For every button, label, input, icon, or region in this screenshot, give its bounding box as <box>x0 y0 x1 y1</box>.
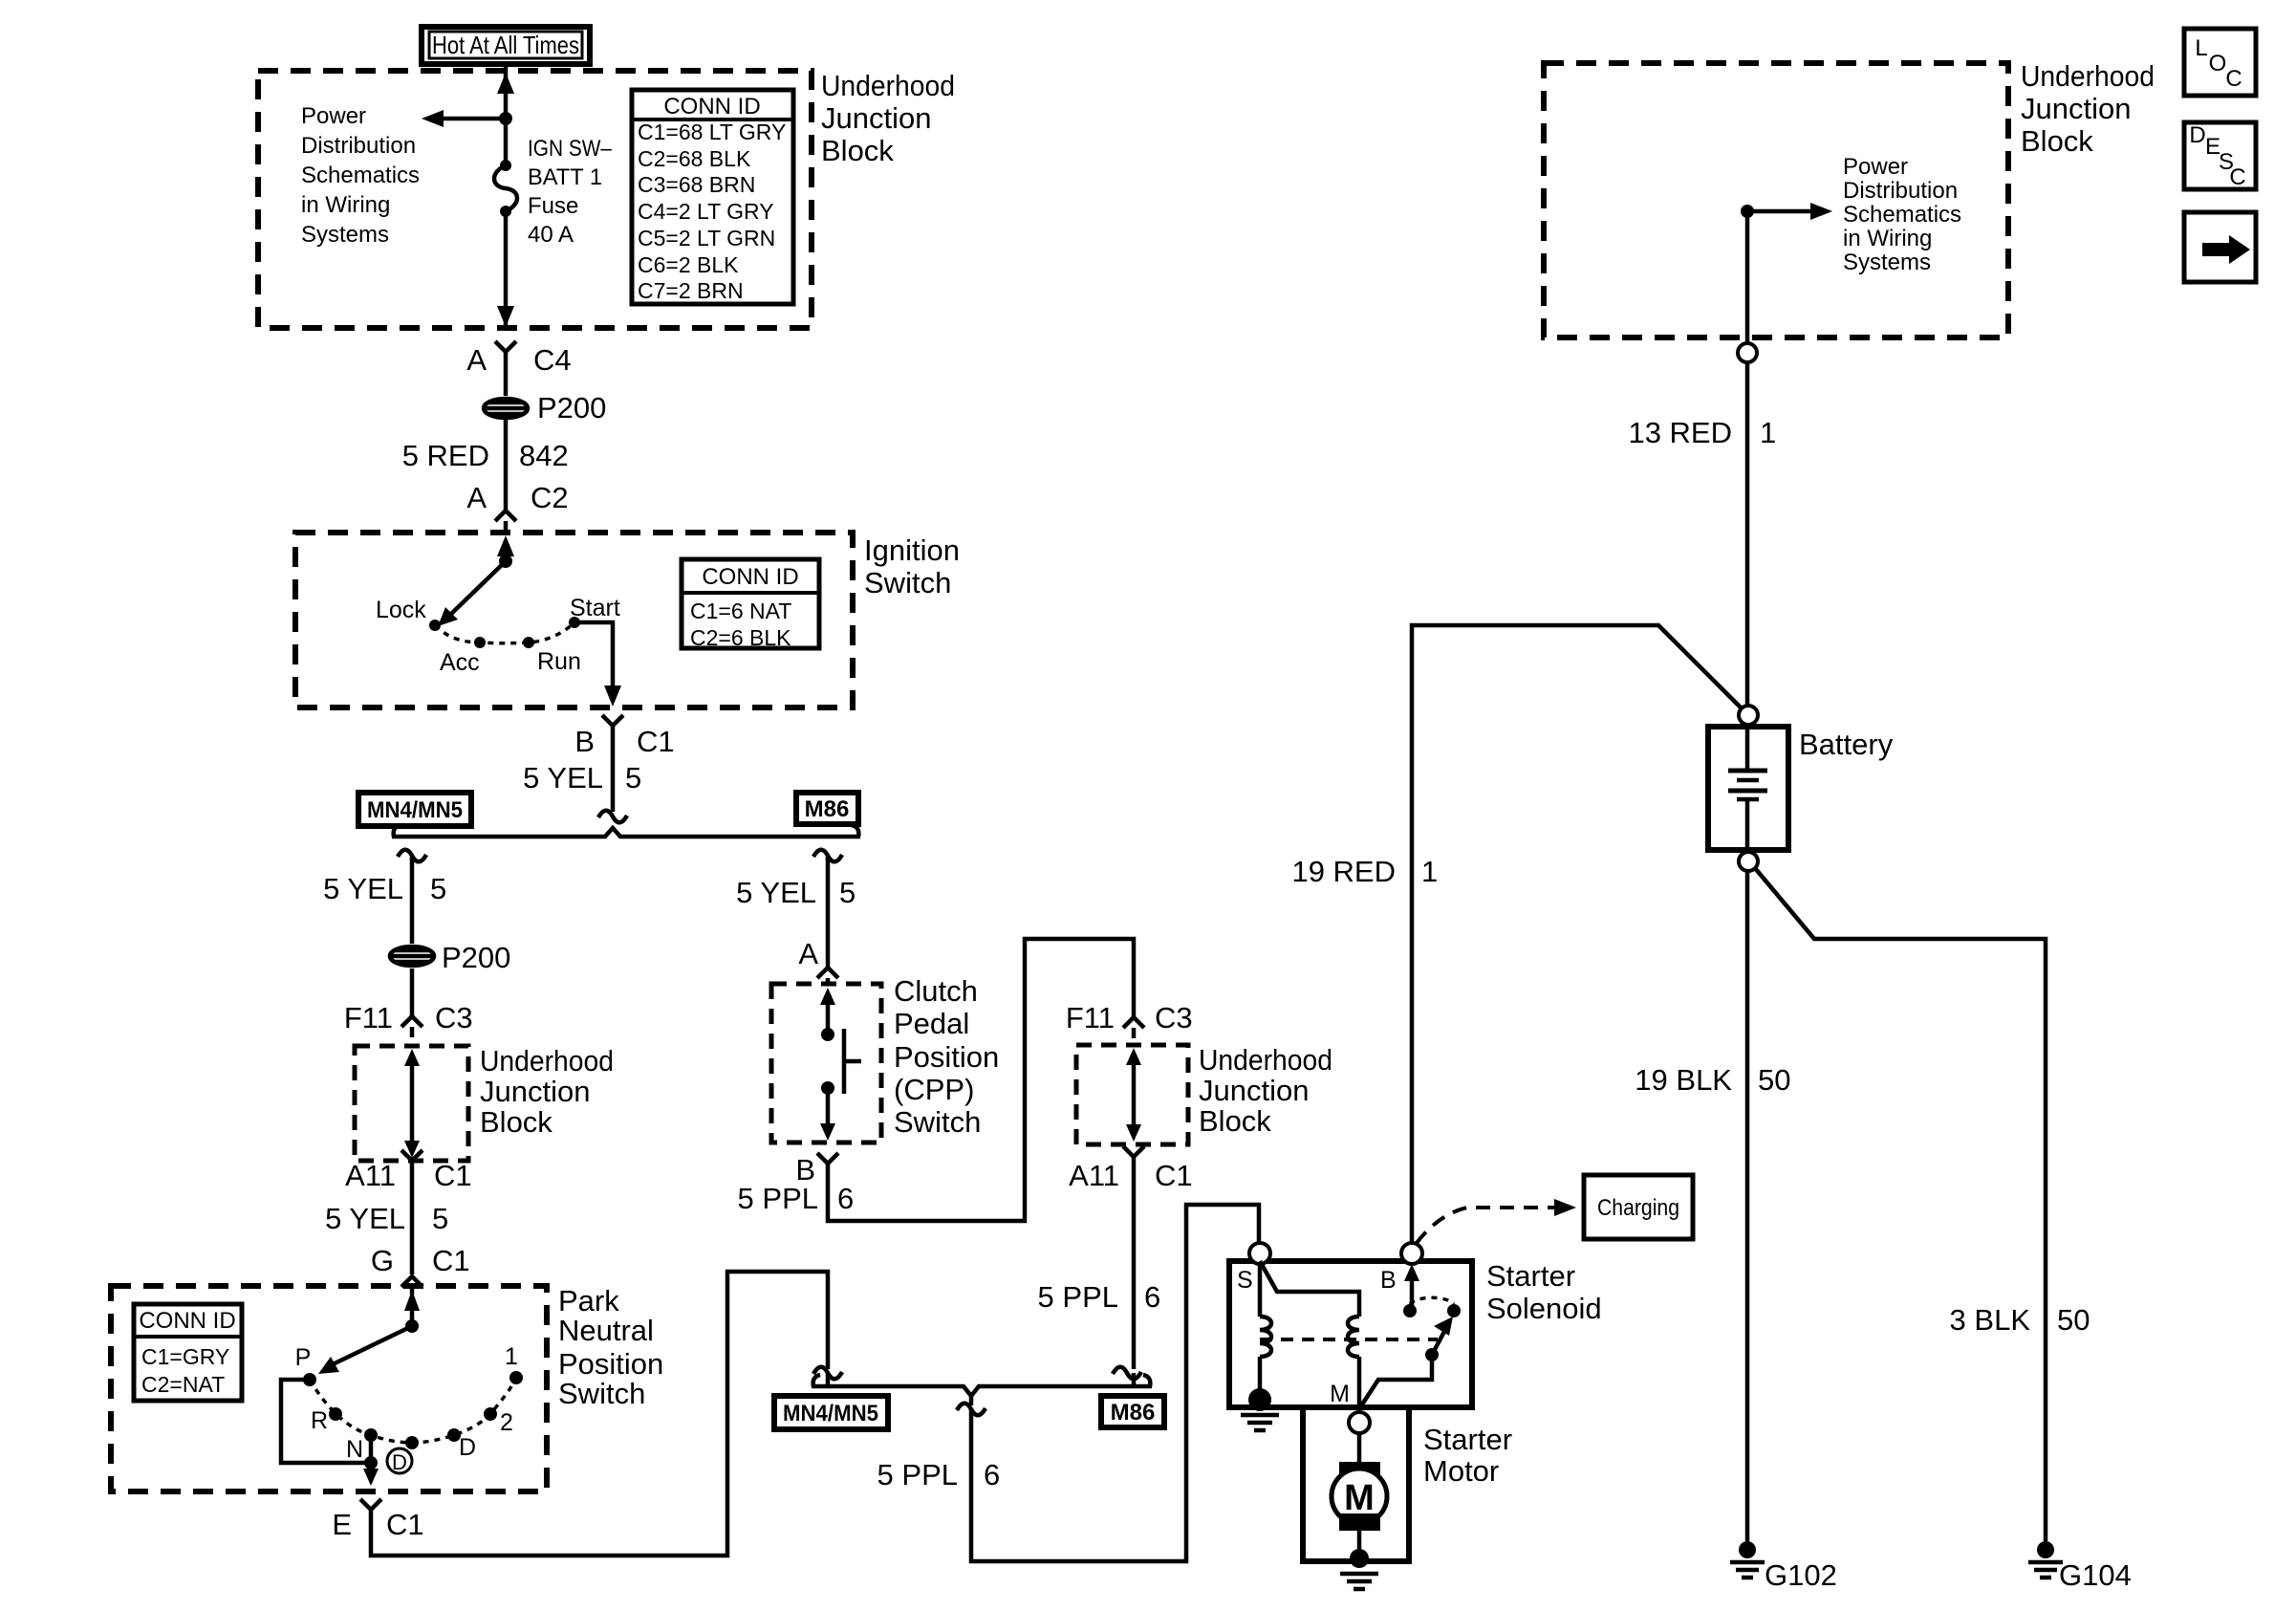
svg-text:in Wiring: in Wiring <box>301 192 390 218</box>
wire P200 to A C2, net 842 <box>504 420 509 511</box>
svg-text:C1=GRY: C1=GRY <box>141 1344 229 1369</box>
wire block 4 down to exit circle <box>1745 211 1750 343</box>
wire label 13 RED 1 <box>1628 416 1776 449</box>
svg-text:Switch: Switch <box>864 566 951 599</box>
terminal S circle <box>1249 1243 1270 1264</box>
solenoid moving contact <box>1360 1317 1453 1407</box>
contact Acc <box>474 637 486 648</box>
CPP switch contacts and plate <box>820 988 861 1141</box>
svg-text:C3=68 BRN: C3=68 BRN <box>638 172 755 197</box>
label Starter Solenoid <box>1486 1259 1602 1325</box>
solenoid internal ground dot <box>1248 1388 1271 1411</box>
terminal M circle <box>1349 1412 1370 1433</box>
wire A C4 to P200 <box>504 365 509 396</box>
svg-text:Distribution: Distribution <box>301 133 416 159</box>
wire label 19 BLK 50 <box>1635 1063 1790 1097</box>
svg-text:Junction: Junction <box>1199 1074 1309 1107</box>
wire down to fuse <box>504 92 509 165</box>
starter motor M <box>1332 1433 1387 1554</box>
LOC legend box <box>2184 29 2256 96</box>
clutch pedal position switch (dashed box) <box>771 984 881 1143</box>
svg-text:Position: Position <box>558 1347 663 1381</box>
splice tag MN4/MN5 (lower) <box>774 1396 888 1429</box>
splice bus 1 <box>394 811 859 837</box>
svg-text:5: 5 <box>430 872 446 905</box>
svg-text:A11: A11 <box>1069 1159 1119 1192</box>
svg-text:C2: C2 <box>531 481 569 514</box>
svg-text:N: N <box>346 1436 363 1463</box>
label Starter Motor <box>1423 1423 1512 1488</box>
splice1 right tap squiggle <box>813 850 842 862</box>
splice tag MN4/MN5 (upper) <box>358 793 471 826</box>
ignition switch (dashed box) <box>295 533 853 708</box>
svg-text:CONN ID: CONN ID <box>139 1308 235 1334</box>
CONN ID table 3 <box>134 1304 242 1401</box>
svg-text:40 A: 40 A <box>528 222 574 248</box>
svg-text:Underhood: Underhood <box>480 1044 614 1078</box>
svg-text:Motor: Motor <box>1423 1454 1499 1488</box>
dashed contact arc solenoid <box>1410 1297 1454 1304</box>
DESC legend box <box>2184 122 2256 190</box>
dashed contact arc ignition <box>435 622 574 643</box>
svg-text:C5=2 LT GRN: C5=2 LT GRN <box>638 226 775 250</box>
svg-text:Junction: Junction <box>2021 92 2131 125</box>
splice tag M86 (lower) <box>1101 1396 1164 1427</box>
wire splice1 to CPP A, 5 YEL 5 <box>826 858 831 968</box>
underhood junction block 3 (dashed box) <box>1076 1045 1188 1144</box>
svg-text:M86: M86 <box>1111 1400 1156 1426</box>
connector F11 C3 (right) <box>1066 1001 1193 1038</box>
label Underhood Junction Block 2 <box>480 1044 614 1139</box>
wire label 5 YEL 5 (CPP feed) <box>736 876 856 909</box>
svg-text:C1=68 LT GRY: C1=68 LT GRY <box>638 120 786 144</box>
svg-text:F11: F11 <box>1066 1001 1115 1034</box>
arrow down at block 1 exit <box>497 306 514 327</box>
arrow up into park switch <box>404 1290 420 1326</box>
wire CPP B to F11 C3 right <box>828 939 1134 1221</box>
wire label 3 BLK 50 <box>1950 1303 2090 1337</box>
starter solenoid box <box>1229 1261 1472 1407</box>
wire arrow left to Power Distribution <box>422 110 506 127</box>
svg-text:B: B <box>574 725 595 758</box>
svg-text:Starter: Starter <box>1423 1423 1512 1456</box>
connector B (CPP) <box>795 1153 838 1186</box>
svg-text:D: D <box>2189 122 2205 148</box>
svg-text:C6=2 BLK: C6=2 BLK <box>638 252 739 277</box>
svg-text:C3: C3 <box>1155 1001 1193 1034</box>
svg-text:E: E <box>332 1508 352 1541</box>
svg-text:50: 50 <box>1758 1063 1790 1097</box>
svg-text:Neutral: Neutral <box>558 1314 654 1347</box>
wire 19 RED 1 solenoid B to battery <box>1412 625 1742 1243</box>
double arrow through block 2 <box>404 1049 420 1158</box>
connector A11 C1 (right) <box>1069 1146 1193 1192</box>
svg-text:A: A <box>466 481 487 514</box>
svg-text:2: 2 <box>500 1409 513 1436</box>
svg-text:M: M <box>1344 1478 1375 1518</box>
connector A11 C1 (left) <box>345 1150 472 1192</box>
svg-text:C7=2 BRN: C7=2 BRN <box>638 278 744 303</box>
wire label 5 YEL 5 (ignition feed) <box>523 761 641 795</box>
CONN ID table 2 <box>682 559 819 650</box>
contact R <box>329 1407 342 1421</box>
svg-text:3 BLK: 3 BLK <box>1950 1303 2031 1337</box>
label box Hot At All Times <box>422 27 590 64</box>
battery top terminal circle <box>1739 706 1758 725</box>
svg-text:Lock: Lock <box>376 597 426 623</box>
wire A11 to G, 5 YEL 5 <box>410 1173 415 1274</box>
svg-text:A: A <box>466 343 487 377</box>
underhood junction block 2 (dashed box) <box>355 1046 468 1161</box>
svg-text:C4=2 LT GRY: C4=2 LT GRY <box>638 199 774 224</box>
svg-text:Block: Block <box>480 1105 552 1139</box>
svg-text:C2=6 BLK: C2=6 BLK <box>690 625 791 650</box>
svg-text:P200: P200 <box>537 391 606 425</box>
svg-text:P200: P200 <box>442 941 510 974</box>
svg-text:C: C <box>2225 66 2242 92</box>
svg-text:Block: Block <box>1199 1104 1271 1138</box>
svg-text:Run: Run <box>537 648 581 675</box>
svg-text:C: C <box>2229 164 2245 190</box>
svg-text:50: 50 <box>2057 1303 2090 1337</box>
svg-text:MN4/MN5: MN4/MN5 <box>783 1401 878 1426</box>
svg-text:5: 5 <box>625 761 641 795</box>
connector A C2 <box>466 481 568 533</box>
label Park Neutral Position Switch <box>558 1284 663 1410</box>
battery <box>1708 727 1788 850</box>
wire label 5 RED 842 <box>402 439 569 472</box>
svg-text:Position: Position <box>894 1040 999 1074</box>
svg-text:R: R <box>311 1407 328 1434</box>
connector G C1 <box>371 1244 470 1295</box>
svg-text:S: S <box>1237 1267 1253 1294</box>
starter motor enclosure <box>1303 1407 1409 1561</box>
svg-text:Charging: Charging <box>1597 1195 1679 1221</box>
fixed contact right <box>1447 1304 1461 1317</box>
svg-text:Park: Park <box>558 1284 619 1317</box>
label Underhood Junction Block 3 <box>1199 1043 1332 1138</box>
wire splice2 to starter solenoid S, 5 PPL 6 <box>971 1205 1259 1561</box>
wire fuse to block bottom <box>504 211 509 326</box>
contact Lock <box>429 620 441 631</box>
hold-in coil (right) <box>1348 1317 1359 1357</box>
connector B C1 (ignition) <box>574 715 674 758</box>
wire label 5 YEL 5 (left branch) <box>323 872 446 905</box>
svg-text:M: M <box>1330 1381 1350 1407</box>
wire left branch down, 5 YEL 5 <box>410 858 415 944</box>
splice1 left tap squiggle <box>398 850 426 862</box>
connector E C1 <box>332 1499 423 1541</box>
svg-text:Underhood: Underhood <box>821 69 955 102</box>
dashed contact arc park <box>310 1378 516 1443</box>
svg-text:Solenoid: Solenoid <box>1486 1292 1602 1325</box>
label Underhood Junction Block 4 <box>2021 59 2155 158</box>
ignition wiper arm from node to Lock <box>438 555 512 626</box>
dashed mechanical link <box>1260 1338 1438 1341</box>
wire label 5 YEL 5 (to park switch) <box>325 1202 448 1235</box>
svg-text:5: 5 <box>432 1202 448 1235</box>
splice tag M86 (upper) <box>796 793 858 824</box>
label Underhood Junction Block 1 <box>821 69 955 167</box>
svg-text:M86: M86 <box>805 796 850 822</box>
arrow up inside block 1 <box>497 73 514 94</box>
svg-text:5 PPL: 5 PPL <box>1038 1280 1118 1314</box>
svg-text:Block: Block <box>2021 124 2093 158</box>
label Clutch Pedal Position (CPP) Switch <box>894 974 999 1139</box>
wire from Hot At All Times into block <box>504 62 509 92</box>
connector A (CPP) <box>798 937 838 986</box>
connector F11 C3 (left) <box>344 1001 473 1037</box>
svg-text:Power: Power <box>1843 154 1908 180</box>
label IGN SW-BATT 1 Fuse 40 A <box>528 136 613 248</box>
svg-text:5 YEL: 5 YEL <box>325 1202 405 1235</box>
svg-text:1: 1 <box>1421 855 1438 888</box>
underhood junction block 1 (dashed box) <box>258 71 812 328</box>
park wiper arm <box>318 1319 419 1374</box>
svg-text:CONN ID: CONN ID <box>702 564 798 590</box>
svg-text:Junction: Junction <box>480 1075 590 1108</box>
svg-text:C1: C1 <box>434 1159 472 1192</box>
wire 3 BLK 50 battery to G104 <box>1755 868 2046 1541</box>
svg-text:L: L <box>2195 35 2207 61</box>
svg-text:5 YEL: 5 YEL <box>323 872 403 905</box>
svg-text:C4: C4 <box>533 343 572 377</box>
grommet P200 (upper) <box>484 391 606 425</box>
svg-text:6: 6 <box>1144 1280 1160 1314</box>
svg-text:Start: Start <box>570 595 620 621</box>
svg-text:F11: F11 <box>344 1001 393 1034</box>
svg-text:Junction: Junction <box>821 101 931 135</box>
battery bottom terminal circle <box>1739 852 1758 871</box>
svg-text:Schematics: Schematics <box>301 163 420 188</box>
svg-text:C1: C1 <box>386 1508 424 1541</box>
svg-text:A: A <box>798 937 818 970</box>
svg-text:Schematics: Schematics <box>1843 202 1961 228</box>
svg-text:13 RED: 13 RED <box>1628 416 1732 449</box>
svg-text:842: 842 <box>519 439 569 472</box>
wire P200 to F11 C3 <box>410 969 415 1015</box>
svg-text:Block: Block <box>821 134 894 167</box>
wire label 5 PPL 6 (CPP out) <box>738 1182 855 1215</box>
svg-text:Clutch: Clutch <box>894 974 978 1008</box>
svg-text:Systems: Systems <box>301 222 389 248</box>
contact P <box>303 1373 316 1386</box>
svg-text:1: 1 <box>1760 416 1776 449</box>
svg-text:G: G <box>371 1244 394 1277</box>
contact Run <box>523 637 534 648</box>
wire A11 right down to splice 2, 5 PPL 6 <box>1132 1168 1137 1369</box>
svg-text:in Wiring: in Wiring <box>1843 226 1932 251</box>
wire label 5 PPL 6 (to solenoid) <box>877 1458 1001 1491</box>
svg-text:Starter: Starter <box>1486 1259 1575 1293</box>
svg-text:Power: Power <box>301 103 366 129</box>
arrow legend box <box>2184 212 2256 282</box>
wire E C1 to splice 2 left <box>371 1272 828 1556</box>
svg-text:Switch: Switch <box>894 1105 981 1139</box>
svg-text:Fuse: Fuse <box>528 193 578 219</box>
svg-text:Pedal: Pedal <box>894 1007 969 1040</box>
fuse IGN SW-BATT 1 40 A <box>494 160 517 217</box>
splice bus 2 <box>813 1367 1151 1416</box>
svg-text:P: P <box>295 1344 312 1371</box>
ground under solenoid <box>1241 1415 1279 1430</box>
svg-text:MN4/MN5: MN4/MN5 <box>367 797 463 823</box>
svg-text:C1: C1 <box>432 1244 470 1277</box>
svg-text:6: 6 <box>984 1458 1000 1491</box>
contact 1 <box>509 1371 523 1384</box>
solenoid B contact arrow <box>1403 1264 1419 1317</box>
svg-text:D: D <box>392 1450 407 1474</box>
svg-text:G104: G104 <box>2059 1558 2132 1592</box>
svg-text:C3: C3 <box>435 1001 473 1034</box>
motor ground dot <box>1350 1549 1369 1568</box>
svg-text:A11: A11 <box>345 1159 396 1192</box>
pull-in coil (left) <box>1260 1317 1271 1357</box>
svg-text:Switch: Switch <box>558 1377 645 1410</box>
svg-text:6: 6 <box>837 1182 854 1215</box>
ground G102 <box>1730 1541 1837 1592</box>
label Ignition Switch <box>864 533 960 599</box>
coil lower wires <box>1260 1357 1359 1407</box>
svg-text:(CPP): (CPP) <box>894 1073 974 1106</box>
wire B C1 to splice, 5 YEL 5 <box>611 738 616 812</box>
contact D <box>447 1428 461 1442</box>
CONN ID table 1 <box>632 90 793 304</box>
svg-text:O: O <box>2209 51 2227 76</box>
ground under motor <box>1340 1574 1378 1589</box>
svg-text:C1=6 NAT: C1=6 NAT <box>690 599 791 623</box>
arrow up into ignition switch <box>497 535 514 561</box>
svg-text:B: B <box>1380 1267 1397 1294</box>
note Power Distribution Schematics in Wiring Systems (right) <box>1843 154 1961 275</box>
wire label 19 RED 1 <box>1291 855 1438 888</box>
note Power Distribution Schematics in Wiring Systems (left) <box>301 103 420 248</box>
terminal B circle <box>1401 1243 1422 1264</box>
dashed wire to Charging <box>1417 1199 1576 1243</box>
svg-text:Underhood: Underhood <box>2021 59 2155 93</box>
svg-text:D: D <box>459 1434 476 1461</box>
svg-text:19 RED: 19 RED <box>1291 855 1396 888</box>
block 4 exit terminal circle <box>1738 343 1757 362</box>
svg-text:BATT 1: BATT 1 <box>528 164 602 190</box>
svg-text:Ignition: Ignition <box>864 533 960 567</box>
svg-text:5 PPL: 5 PPL <box>877 1458 958 1491</box>
svg-text:Acc: Acc <box>440 649 480 676</box>
svg-text:IGN SW–: IGN SW– <box>528 136 613 162</box>
wire P to output junction <box>281 1380 371 1463</box>
svg-text:CONN ID: CONN ID <box>663 94 760 120</box>
svg-text:19 BLK: 19 BLK <box>1635 1063 1732 1097</box>
junction dot park output <box>364 1456 378 1469</box>
solenoid S branch wiring <box>1260 1261 1359 1317</box>
wire label 5 PPL 6 (A11 branch) <box>1038 1280 1161 1314</box>
contact Start <box>569 617 580 628</box>
wire 19 BLK 50 battery to G102 <box>1745 871 1750 1541</box>
junction dot block 4 <box>1741 205 1754 218</box>
svg-text:C2=NAT: C2=NAT <box>141 1372 225 1397</box>
circled D indicator <box>387 1448 412 1474</box>
svg-text:Distribution: Distribution <box>1843 178 1958 204</box>
svg-text:5 YEL: 5 YEL <box>736 876 816 909</box>
charging indicator box <box>1584 1175 1693 1239</box>
underhood junction block 4 (dashed box) <box>1544 63 2008 337</box>
svg-text:Battery: Battery <box>1799 728 1894 761</box>
contact N <box>364 1428 378 1442</box>
contact low (between N and D) <box>405 1436 419 1449</box>
contact 2 <box>484 1407 497 1421</box>
wire Start contact down to B C1 <box>574 622 621 707</box>
ground G104 <box>2028 1541 2132 1592</box>
svg-text:5 RED: 5 RED <box>402 439 489 472</box>
svg-text:C1: C1 <box>637 725 675 758</box>
svg-text:5: 5 <box>839 876 856 909</box>
svg-text:1: 1 <box>505 1343 518 1370</box>
wire N to junction and arrow out <box>363 1435 379 1486</box>
grommet P200 (lower) <box>390 941 510 974</box>
svg-text:5 PPL: 5 PPL <box>738 1182 818 1215</box>
park neutral position switch (dashed box) <box>111 1286 547 1491</box>
double arrow through block 3 <box>1126 1048 1141 1142</box>
svg-text:Underhood: Underhood <box>1199 1043 1332 1077</box>
svg-text:Hot At All Times: Hot At All Times <box>432 31 579 59</box>
svg-text:5 YEL: 5 YEL <box>523 761 603 795</box>
arrow right to Power Distribution <box>1747 203 1832 220</box>
svg-text:Systems: Systems <box>1843 250 1931 275</box>
junction dot node <box>499 112 512 125</box>
connector A C4 <box>466 341 571 377</box>
svg-text:G102: G102 <box>1765 1558 1837 1592</box>
wire 13 RED 1 to battery <box>1745 362 1750 706</box>
svg-text:C1: C1 <box>1155 1159 1193 1192</box>
svg-text:C2=68 BLK: C2=68 BLK <box>638 146 751 171</box>
